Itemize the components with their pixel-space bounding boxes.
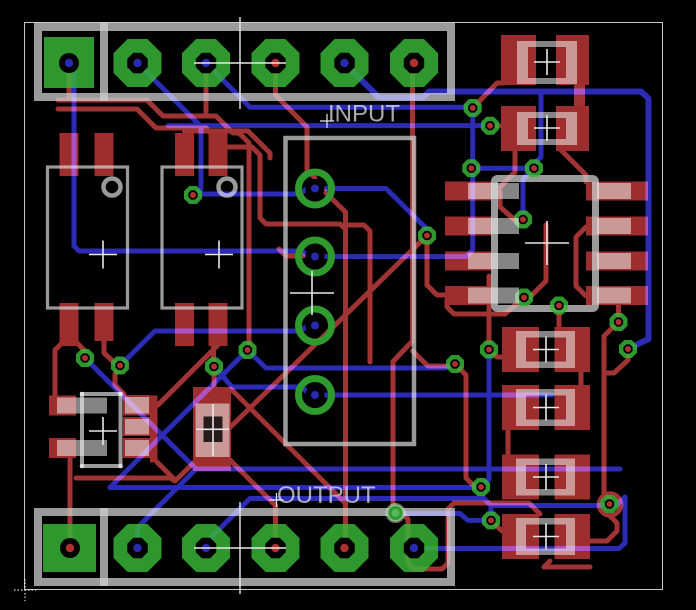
via V12 [76,349,94,367]
capacitor C2 body overlay [517,112,577,145]
wire blue pad5 top over header to right edge [345,63,649,349]
wire blue via L1 diagonal to y469 line [85,358,196,469]
connector J1 top header pin1 frame [38,27,108,97]
wire blue DIP pad1 right to via 427 [315,189,427,236]
wire red long diagonal to via 427 [175,236,427,482]
capacitor C1 pad right [556,35,589,85]
connector J2 bottom header pin1 frame [38,512,108,582]
wire blue pad1 top down-left column [69,63,315,258]
resistor R1 body overlay [196,404,230,458]
capacitor C3 pad left [502,327,539,372]
via V9 [610,313,628,331]
origin cross C6 [533,524,559,550]
IC U4 SOIC outline [495,179,596,309]
connector J1 pad 4 octagon [252,39,300,87]
via V4 [525,159,543,177]
wire blue via 489 down to via 481 [481,352,489,487]
regulator U5 pad left-bottom [49,438,76,458]
wire red header wrap from via 395 to cap B4 [396,503,541,569]
optocoupler U2 outline [162,167,242,308]
wire red SOT bar to opto2 diagonal [158,343,220,405]
wire red polygon ring around via C [599,494,621,516]
optocoupler U1 pad bottom-left [60,303,79,346]
wire red pad3 top feed [204,68,209,114]
capacitor C4 pad left [502,385,539,430]
connector J1 pad 3 octagon [182,39,230,87]
origin cross J2 [194,502,286,594]
wire red cap B2 to B3 left connector [506,428,511,456]
wire blue DIP pad4 right to cap B2 [315,393,552,398]
wire red branch pin6 vertical to via 455 [413,351,449,366]
IC U3 pad 4 ring [299,379,332,412]
connector J2 pad 6 octagon [390,524,438,572]
regulator U5 pad overlays left [57,398,107,414]
wire red via B down [606,349,628,373]
connector J2 pad 4 octagon [252,524,300,572]
wire blue via 213 to DIP pad4 [214,367,315,396]
regulator U5 pad left-top [49,396,76,416]
via V5 [514,211,532,229]
wire red via2 to top cap C2 [490,123,505,128]
via V14 [205,358,223,376]
origin cross U1 [89,241,117,269]
wire blue via L2 up to DIP pad3 [120,326,315,366]
wire blue via to DIP pad1 [193,189,315,195]
wire red SOIC pad1 left jog [500,191,523,221]
origin cross U3 DIP [290,271,334,315]
wire red DIP pad2 stub [279,249,303,256]
wire red via1 to top cap C1 [473,83,504,108]
regulator U5 SOT23 outline [82,394,121,466]
via V7 [515,289,533,307]
wire red via to cap B1 right pad [557,306,562,333]
IC U4 pad 3 left [445,252,492,271]
wire red via 427 to SOIC pad4 left [427,236,447,296]
origin cross U4 SOIC [525,221,569,265]
via V17 [480,341,498,359]
wire red cap B4 bottom link [544,561,590,567]
capacitor C6 pad left [502,514,539,559]
capacitor C1 body overlay [517,41,577,84]
capacitor C4 body overlay [516,389,575,426]
wire blue cap C2 middle vertical to via 534 [534,92,541,168]
IC U4 pad 7 right [586,252,648,271]
origin cross C2 [534,115,560,141]
IC U3 pad 2 ring [299,240,332,273]
optocoupler U1 pad bottom-right [95,303,114,341]
wire red resistor bottom diagonal to pad4 bottom [230,460,276,540]
wire blue via 534 to via 523 [523,168,534,219]
wire blue pad3 top to via1 y107 [206,63,473,108]
wire red SOT left pad2 to square pad [68,455,73,540]
wire red opto1 pad1 to via L1 [74,340,85,358]
regulator U5 pad right-top [123,395,150,416]
capacitor C5 pad right [555,455,591,500]
capacitor C2 pad left [501,106,536,151]
IC U3 pad 1 ring [299,172,332,205]
IC U4 pad 4 left [445,286,492,305]
wire red C2 left pad down to SOIC [500,152,515,187]
optocoupler U2 pad bottom-left [175,303,194,346]
optocoupler U1 outline [48,167,128,308]
wire blue via segment y168 [473,166,534,171]
connector J1 pad 1 square [44,37,94,88]
wire red C2 right pad to SOIC pad1 right [560,149,586,182]
wire blue y125 line to via2 [168,123,490,128]
wire red via L2 down to SOT pad [115,367,124,394]
connector J2 pad 3 octagon [182,524,230,572]
capacitor C4 pad right [555,385,591,430]
wire red fan stair 2 [58,109,346,229]
connector J2 bottom header frame [104,512,451,582]
connector J1 pad 6 octagon [390,39,438,87]
wire red opto1 pad2 bottom to via L2 [104,340,116,364]
IC U4 pad 8 right [586,286,648,305]
wire red resistor top diagonal to pad5 bottom vertical [231,389,345,503]
wire blue pad2 top diagonal to via [138,63,202,195]
connector J2 pad 5 octagon [321,524,369,572]
regulator U5 pad right-bottom [123,438,150,458]
capacitor C3 pad right [555,327,591,372]
regulator U5 right bar [150,396,158,463]
origin cross C3 [533,337,559,363]
connector J1 pad 5 octagon [321,39,369,87]
optocoupler U2 pad top-left [175,133,194,176]
IC U3 DIP outline [286,138,415,444]
origin cross C5 [533,464,559,490]
connector J1 pad 2 octagon [114,39,162,87]
origin cross R1 [196,404,229,456]
wire red opto2 top pads link [185,131,271,158]
optocoupler U2 pad bottom-right [209,303,228,346]
wire red C1-C2 right pads connector [574,83,585,108]
wire red opto2 pad2 bottom to via 213 [211,344,216,363]
IC U3 pad 3 ring [299,309,332,342]
via V20 [601,495,619,513]
wire blue y498 line to via 491 [250,499,491,521]
wire red SOIC pad4r to via A [616,304,621,322]
via V1 [464,99,482,117]
optocoupler U1 pin1 ring [104,179,121,196]
IC U4 SOIC right pad overlays [597,183,631,199]
wire red via 213 to resistor top [212,368,217,390]
regulator U5 pad right-mid [123,417,150,436]
IC U4 pad 2 left [445,217,492,236]
origin cross U2 [205,241,233,269]
via V6 [418,227,436,245]
via V18 [472,478,490,496]
via V11 [184,186,202,204]
resistor R1 dark window [204,417,223,443]
capacitor C3 body overlay [516,331,575,368]
optocoupler U1 pad top-left [60,133,79,176]
wire blue via 248 long diagonal to y488 line [110,350,248,488]
wire blue diag to pad3 bottom [207,499,251,549]
capacitor C5 pad left [502,455,539,500]
regulator U5 outline corner dots [80,392,85,397]
capacitor C6 body overlay [516,518,575,555]
capacitor C2 pad right [556,106,589,151]
origin cross J1 [194,17,286,109]
wire red via C tail under cap B4 [560,516,617,541]
wire red header pin6 long vertical [393,64,414,508]
wire red SOIC interior to via [524,225,546,298]
wire red via 455 down to via 481 [455,364,481,487]
regulator U5 pad overlays right [125,397,149,414]
via V10 [619,340,637,358]
via V-tented near J2 [387,505,404,522]
wire red cap B1 to B2 right connector [579,370,584,387]
origin cross U5 SOT [89,417,117,445]
via V19 [482,511,500,529]
wire red SOIC right pads link [576,227,586,296]
wire red via to cap B1 left pad [489,350,505,358]
capacitor C5 body overlay [516,459,575,496]
optocoupler U2 pad top-right [209,133,228,176]
wire red via 491 to cap B4 left pad [491,520,502,531]
wire blue y469 line [196,467,620,472]
wire blue via 248 to via 455 [248,350,456,368]
optocoupler U2 pin1 ring [219,179,236,196]
origin cross INPUT text [320,114,334,128]
IC U4 pad 5 right [586,182,648,201]
IC U4 pad 1 left [445,182,492,201]
wire blue y469 to pad2 bottom [138,469,197,548]
capacitor C1 pad left [501,35,536,85]
capacitor C6 pad right [555,514,591,559]
wire red opto1 pad1 bottom to SOT pad1 [55,344,61,396]
via V16 [446,355,464,373]
wire blue y488 line to via 481 [110,485,481,491]
origin cross C1 [534,49,560,75]
wire red pad4 top feed to DIP pad1 [276,68,316,178]
wire red DIP interior vertical 2 [346,225,371,362]
connector J2 pad 2 octagon [114,524,162,572]
origin cross OUTPUT text [270,493,284,507]
wire blue via 491 through via C to pad6 bottom [414,497,625,549]
optocoupler U1 pad top-right [95,133,114,176]
wire red SOIC pad4l to via 524 and via 489 [447,276,523,344]
IC U4 SOIC left pad overlays [468,183,519,199]
resistor R1 body [193,387,231,471]
origin cross C4 [533,395,559,421]
via V8 [550,297,568,315]
wire red fan stair 1 from square pad [58,63,249,346]
wire red DIP pad1 to interior vertical [316,183,346,540]
via V3 [462,159,480,177]
wire blue via1 down SOIC left to DIP pad2 [315,108,473,257]
via V13 [111,357,129,375]
wire red via A down right side [604,322,619,499]
wire red SOT bottom web [76,462,175,481]
via V2 [481,117,499,135]
via V15 [239,341,257,359]
IC U4 pad 6 right [586,217,648,236]
connector J1 top header frame [104,27,451,97]
connector J2 pad 1 square [43,524,96,572]
wire blue via 395 to via 491 [396,514,492,521]
board origin dotted cross [14,579,36,601]
